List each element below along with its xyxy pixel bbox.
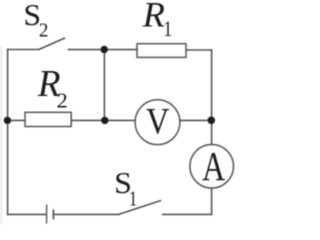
wire R1 to top-right corner xyxy=(186,49,212,51)
wire middle branch: left wire to R2 xyxy=(8,119,25,121)
svg-text:S: S xyxy=(23,0,41,32)
wire R2 to voltmeter xyxy=(71,119,135,121)
battery short plate xyxy=(52,210,54,218)
svg-text:1: 1 xyxy=(163,17,172,41)
resistor R2 body xyxy=(25,112,71,126)
node junction dot left (left wire / R2) xyxy=(4,117,11,124)
wire battery to switch S1 pivot xyxy=(53,213,119,215)
wire bottom-left corner to battery xyxy=(8,213,46,215)
ammeter A circle xyxy=(190,145,234,189)
svg-text:2: 2 xyxy=(57,88,68,112)
voltmeter V circle xyxy=(135,100,180,145)
wire voltmeter to right wire xyxy=(180,119,212,121)
wire left side vertical xyxy=(7,50,9,215)
wire top-left to switch S2 pivot xyxy=(8,49,39,51)
wire S2 to R1 xyxy=(68,49,137,51)
node junction dot right (V / right wire) xyxy=(208,117,216,125)
switch S1 blade xyxy=(119,201,161,215)
svg-text:V: V xyxy=(146,100,169,142)
switch S2 blade xyxy=(39,38,64,49)
svg-text:2: 2 xyxy=(39,19,48,42)
wire right side lower (ammeter to bottom corner) xyxy=(211,188,213,214)
wire right side upper (to ammeter) xyxy=(211,50,213,145)
svg-text:1: 1 xyxy=(129,188,137,212)
wire bottom right segment xyxy=(163,213,212,215)
battery long plate xyxy=(46,205,48,223)
wire vertical link from top junction to middle junction xyxy=(103,50,105,121)
node junction dot top (S2/R1/link) xyxy=(101,46,108,53)
node junction dot middle (R2 / V / link) xyxy=(101,117,108,124)
svg-text:A: A xyxy=(202,143,225,189)
svg-text:R: R xyxy=(142,0,165,34)
scan artifact: faint page edge line at left xyxy=(0,46,2,225)
resistor R1 body xyxy=(137,44,186,58)
